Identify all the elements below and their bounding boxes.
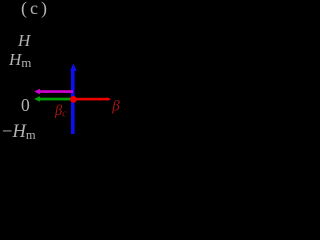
svg-text:β: β [111, 98, 120, 114]
svg-text:0: 0 [21, 95, 30, 115]
axis H vertical blue [71, 68, 75, 134]
axis beta horizontal red [75, 98, 108, 101]
green arrow left [37, 98, 71, 101]
node red dot at origin [70, 96, 77, 103]
magenta arrow left [37, 90, 73, 93]
blue arrowhead up [70, 63, 76, 71]
svg-text:(c): (c) [21, 0, 50, 19]
svg-text:H: H [17, 31, 32, 50]
red arrowhead right [108, 97, 112, 101]
